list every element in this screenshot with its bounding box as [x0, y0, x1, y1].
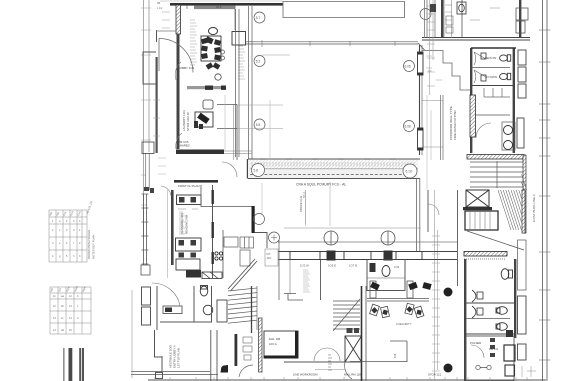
vert leader x330	[329, 182, 331, 226]
dark band left	[174, 180, 218, 183]
column dark top	[506, 330, 513, 337]
chair above 1	[370, 282, 380, 291]
right mid dim ticks	[432, 236, 440, 371]
elevator shaft	[466, 190, 489, 207]
corridor top dashes	[260, 158, 396, 160]
wall block 2	[221, 86, 226, 90]
column circle F2	[381, 231, 395, 245]
bottom dim ticks	[155, 377, 527, 381]
plant circle 1	[215, 74, 221, 80]
vert dim x262 low	[261, 183, 263, 214]
grid bubble B top	[420, 9, 431, 20]
west outer wall low pair	[144, 194, 147, 265]
svg-text:5.7: 5.7	[256, 16, 261, 20]
desk diag chair	[197, 113, 209, 124]
left pilaster 2	[142, 307, 151, 325]
wall x278 seg	[278, 240, 280, 300]
west inner wall	[177, 34, 180, 149]
wall x320 lower	[320, 260, 322, 301]
entry step marks	[144, 187, 154, 193]
dim text stack B	[238, 46, 245, 79]
svg-text:1O2 W: 1O2 W	[300, 264, 309, 268]
room2 door arc	[176, 133, 182, 149]
svg-text:118: 118	[393, 353, 397, 358]
vert leader x305b	[305, 190, 307, 224]
conference chairs	[201, 38, 221, 70]
vert dim x270	[269, 100, 271, 160]
corner hatched wall	[176, 5, 181, 34]
lower door arc	[239, 365, 253, 377]
wash toilet	[200, 286, 208, 297]
janitor room	[466, 336, 514, 381]
corridor hatch band	[250, 160, 417, 169]
courtyard outline	[283, 2, 405, 18]
class table 3	[176, 259, 200, 270]
svg-text:1ST FLR PLAN: 1ST FLR PLAN	[177, 348, 181, 368]
north horizontal wall	[422, 38, 530, 41]
wall x236 lower	[235, 334, 238, 366]
west outer wall lower	[156, 57, 158, 153]
bubble mid 2 mark	[271, 235, 277, 241]
west wall box	[141, 265, 150, 275]
wash sink 1	[504, 126, 513, 135]
svg-text:12O A: 12O A	[269, 342, 277, 346]
stall door arc 2	[474, 70, 485, 83]
wall x428	[427, 190, 429, 232]
svg-text:6.08: 6.08	[405, 124, 411, 128]
stall fixtures lower	[472, 290, 483, 318]
tall cabinet 2	[518, 344, 527, 360]
kit text box	[265, 249, 278, 266]
svg-text:MENS RM: MENS RM	[485, 57, 496, 60]
stripe thick 2a	[79, 348, 81, 381]
low stairs treads	[228, 288, 257, 323]
heavy wall blocks right	[252, 206, 255, 233]
y369 line	[315, 369, 345, 371]
svg-text:5.5: 5.5	[256, 123, 261, 127]
south wall band	[278, 252, 457, 260]
svg-text:SHARED: SHARED	[178, 144, 190, 148]
stair box treads	[470, 212, 490, 229]
stall door arc 1	[474, 52, 485, 65]
north wall b	[441, 0, 443, 38]
corridor bottom line	[248, 178, 420, 180]
dark counter	[186, 270, 201, 278]
class chairs 2	[179, 240, 197, 258]
stall wall 1	[466, 302, 516, 304]
ele room box	[264, 331, 298, 358]
north wall d	[519, 0, 521, 38]
interior wall pair 2	[249, 6, 253, 160]
svg-text:KIT: KIT	[267, 252, 271, 256]
wash walls	[157, 286, 212, 330]
table top item	[205, 36, 214, 44]
stall wall 3	[466, 333, 516, 335]
classroom west wall	[171, 190, 174, 265]
class note marks	[179, 212, 185, 234]
stall wall 2	[466, 318, 510, 320]
lower bath west wall	[464, 259, 466, 381]
right property line	[542, 0, 544, 381]
toilet lower c	[496, 323, 507, 331]
niche inner line	[233, 105, 235, 161]
bath door arc	[476, 123, 491, 138]
corridor left arc	[222, 162, 237, 177]
north casework 1	[516, 8, 528, 20]
stair hatch sidewall	[522, 190, 525, 233]
svg-text:11O: 11O	[267, 256, 272, 260]
desk diag room	[195, 112, 213, 127]
conference table	[201, 36, 221, 61]
long line ticks	[262, 40, 395, 47]
toilet lower b	[496, 307, 507, 315]
corridor dashed line	[250, 174, 417, 176]
dishwasher box	[202, 272, 222, 279]
svg-text:MAIL RM 118: MAIL RM 118	[344, 373, 361, 377]
svg-text:FIRE RATED GYP BD: FIRE RATED GYP BD	[453, 109, 457, 140]
column blob 1	[444, 288, 453, 297]
svg-text:READING RM: READING RM	[185, 214, 189, 234]
entry left dim line	[131, 290, 133, 378]
chair above 2	[408, 282, 418, 290]
jan fixtures	[490, 338, 495, 357]
stove circles	[215, 252, 223, 260]
stair diag hatch	[498, 174, 527, 230]
table 1 text	[49, 210, 95, 259]
bottom right ticks	[522, 366, 536, 377]
window box 2	[418, 128, 424, 150]
north room line x451	[451, 0, 453, 38]
grid bubble A y170	[253, 164, 266, 177]
tr partition	[367, 277, 405, 279]
left dimension chain	[144, 0, 150, 238]
chair above 3	[422, 282, 431, 290]
svg-text:STOR 1O2 JC: STOR 1O2 JC	[186, 111, 190, 131]
south col block 2	[384, 251, 393, 261]
svg-text:FIRST FL PLAN: FIRST FL PLAN	[178, 184, 200, 188]
svg-text:1O7 B: 1O7 B	[349, 264, 357, 268]
grid bubble A y61	[254, 56, 265, 67]
tr fixture 1	[370, 263, 376, 272]
door arcs pair	[314, 348, 340, 361]
grid bubble B y126	[404, 121, 415, 132]
svg-text:ELE. RM: ELE. RM	[269, 337, 281, 341]
svg-text:1O6 E: 1O6 E	[328, 264, 336, 268]
bottom boundary line	[148, 379, 546, 381]
cabinet right dark	[504, 345, 515, 361]
upper stairs handrail	[496, 161, 498, 188]
svg-text:5.2: 5.2	[256, 59, 261, 63]
equip marks	[194, 121, 203, 129]
desk cluster right	[370, 303, 424, 318]
svg-text:5.8: 5.8	[254, 168, 259, 172]
lockers right	[518, 50, 526, 98]
shelving X box	[345, 336, 362, 362]
left dim ticks	[141, 8, 151, 205]
wall x290 lower	[289, 260, 291, 295]
table top ellipse	[209, 28, 218, 35]
jog right low	[255, 233, 268, 249]
entry arc	[152, 283, 180, 306]
bath west wall	[470, 48, 472, 153]
note text stack C	[303, 270, 310, 292]
vanity rect	[517, 118, 524, 148]
vert leader x305	[305, 190, 307, 226]
stair side wall upper	[523, 155, 526, 233]
ele room east wall	[295, 331, 298, 358]
vestibule wall upper	[154, 330, 156, 357]
svg-text:STOR 121: STOR 121	[428, 373, 442, 377]
class chairs 1	[179, 197, 196, 203]
south wall window 1	[290, 252, 320, 260]
bath top wall	[471, 47, 516, 49]
casework box	[224, 237, 238, 247]
toilet room center	[367, 260, 405, 291]
right property line 2	[546, 0, 548, 381]
top interior wall band	[194, 6, 235, 10]
lav hatched wall	[470, 95, 476, 137]
shelf marks	[347, 328, 360, 333]
tall rect upper	[518, 240, 527, 290]
bath mid wall	[471, 85, 515, 87]
svg-text:PULSER: PULSER	[470, 341, 481, 345]
low stair edge	[256, 286, 258, 330]
corridor left jamb	[247, 159, 249, 179]
svg-text:LOBBY 1O1: LOBBY 1O1	[178, 66, 195, 70]
wall connector y31	[156, 30, 176, 32]
svg-text:4B: 4B	[157, 1, 160, 5]
top exterior wall	[170, 3, 283, 6]
diag connector	[418, 43, 425, 50]
svg-text:1 1/2: 1 1/2	[157, 7, 163, 10]
janitor door arc	[471, 345, 484, 358]
right top dim chain	[430, 0, 434, 95]
stripe thick 2b	[82, 348, 84, 381]
right top blob	[430, 4, 436, 12]
column blob 2	[444, 364, 453, 373]
svg-text:1O9: 1O9	[394, 265, 399, 269]
lower mid walls	[211, 330, 217, 381]
corridor inner line	[250, 168, 418, 170]
diagonal wall double	[228, 259, 257, 291]
vestibule door arc	[159, 39, 193, 73]
wash counter	[163, 306, 182, 314]
niche top room	[201, 185, 254, 207]
ele room south wall	[264, 356, 298, 359]
toilet 2	[500, 73, 511, 79]
stall partition 2	[471, 114, 510, 116]
center wall x213	[212, 185, 214, 278]
corridor tick row	[252, 162, 414, 167]
mid stair stringer	[333, 299, 360, 331]
svg-text:NOTES KEY PLAN: NOTES KEY PLAN	[92, 235, 96, 259]
hatched band right	[467, 155, 524, 160]
top dim line	[160, 0, 283, 2]
grid bubble A y124	[254, 119, 265, 130]
xbox door arc	[345, 362, 352, 379]
door panel rect	[217, 300, 227, 322]
corridor band base	[248, 160, 418, 179]
left pilaster 1	[142, 287, 151, 305]
wash sink 2	[504, 141, 513, 150]
wash counter sink	[165, 308, 172, 313]
table 2 text	[50, 285, 87, 332]
mid stairs treads	[333, 301, 360, 329]
svg-text:ROOM FINISH SCHED: ROOM FINISH SCHED	[87, 230, 91, 259]
north room wall a	[434, 0, 436, 38]
interior wall band y88	[187, 86, 226, 89]
corridor top line	[248, 158, 420, 160]
wash counter	[502, 122, 515, 150]
interior wall pair 1	[236, 9, 240, 157]
wall jog room 118	[350, 341, 407, 362]
right wing west wall	[420, 45, 423, 155]
counter screens	[484, 88, 510, 97]
sink small	[203, 100, 213, 109]
ele west hatched wall	[259, 318, 263, 372]
janitor box	[505, 365, 515, 376]
grid bubble B4 over band	[403, 164, 417, 178]
class table 1	[177, 195, 202, 205]
bubble mid 2	[269, 232, 280, 243]
upper stairs treads	[470, 162, 524, 187]
class dim marks	[178, 208, 198, 210]
svg-text:6.05: 6.05	[405, 64, 411, 68]
wall block 1	[205, 86, 213, 90]
partition line y299	[367, 299, 429, 302]
jog room SW	[284, 294, 303, 301]
jog ticks	[426, 56, 442, 80]
window box	[418, 52, 424, 75]
mid wall thin ext	[224, 151, 252, 154]
right property ticks	[539, 30, 551, 360]
hatched band right-mid	[464, 252, 507, 257]
legend table 1	[49, 210, 87, 262]
lower bath east wall	[514, 259, 516, 338]
west wall mullions	[142, 194, 149, 264]
svg-text:CRA A SQUL PCMURY FCU - AL: CRA A SQUL PCMURY FCU - AL	[296, 183, 346, 187]
svg-text:LINE WORKROOM: LINE WORKROOM	[293, 373, 318, 377]
long double line upper	[245, 42, 418, 44]
west outer wall upper	[156, 30, 158, 42]
urinal fixtures	[481, 53, 486, 81]
wash sink circle	[203, 305, 213, 315]
stair diagonal line	[467, 231, 524, 250]
west wall pair below box	[146, 154, 150, 191]
right top dim ticks	[427, 6, 435, 86]
north casework 2	[516, 21, 525, 33]
cubbies grid	[240, 237, 254, 266]
west dim marks mid	[158, 158, 166, 174]
niche ext line y128	[237, 128, 283, 130]
toilet 1	[500, 55, 511, 61]
stripe thin	[63, 348, 64, 381]
sink top room	[457, 2, 466, 14]
vert dim x225	[224, 95, 226, 150]
dotted strip	[464, 258, 506, 260]
partition stub 2	[407, 281, 413, 298]
stall partition 1	[471, 67, 510, 69]
north room marks	[445, 5, 500, 20]
svg-text:3.2: 3.2	[428, 69, 432, 73]
corridor end wall pair	[417, 178, 420, 251]
west wall lower pair	[441, 95, 444, 160]
small room door arc	[428, 204, 439, 215]
right top marks	[444, 0, 453, 37]
svg-text:EXIST BLDG LINE A: EXIST BLDG LINE A	[532, 194, 536, 222]
left recess bump	[143, 52, 156, 84]
lower wall y362	[284, 361, 361, 363]
svg-text:ABOVE CLG: ABOVE CLG	[299, 196, 303, 212]
grid bubble A y17	[254, 12, 265, 23]
right wing h-line y147	[422, 146, 443, 148]
top small ticks	[162, 12, 170, 28]
heavy wall mid	[362, 286, 367, 381]
table cups	[221, 50, 225, 60]
column circle F1	[324, 231, 338, 245]
toilet lower a	[501, 269, 512, 280]
svg-text:115 WMNS: 115 WMNS	[485, 76, 497, 79]
south dim line	[284, 227, 421, 229]
niche ext line y105	[237, 104, 283, 106]
tr toilet	[382, 266, 390, 277]
top partition stubs	[187, 6, 235, 31]
niche walls	[217, 105, 237, 161]
grid bubble B y66	[404, 61, 415, 72]
classroom door arc top	[161, 186, 171, 196]
partition stub 1	[370, 281, 376, 298]
west wall box mid	[142, 142, 154, 154]
room1 door arc	[175, 62, 181, 80]
classroom west inner line	[167, 190, 169, 278]
south wall window 3	[396, 252, 422, 260]
vestibule wall lower	[154, 356, 162, 372]
west wall ticks	[153, 100, 160, 136]
west wall mid	[177, 90, 180, 132]
right wing h-line y100	[422, 100, 443, 102]
svg-text:18.5: 18.5	[216, 5, 222, 9]
north room wall pair left	[425, 0, 428, 38]
tick string x329	[328, 355, 332, 370]
north room wall c	[461, 0, 463, 38]
bath east wall	[513, 48, 515, 153]
stripe thick 1	[69, 348, 73, 381]
south wall window 2	[344, 252, 371, 260]
leader y55	[262, 54, 290, 56]
wall x457	[457, 190, 459, 286]
right wing dim marks	[427, 95, 431, 190]
mid hatched wall	[176, 150, 224, 155]
lower small marks	[243, 337, 252, 360]
low stair wall	[251, 286, 253, 333]
south col block 1	[327, 251, 336, 261]
dim symbol oc	[476, 365, 491, 369]
tall cabinet 1	[518, 296, 527, 334]
bubble mid 1	[254, 214, 265, 225]
elevator south wall	[463, 207, 492, 210]
legend table 2	[50, 287, 91, 334]
closet rect	[232, 32, 246, 46]
dim text stack A	[190, 20, 197, 65]
room jog steps	[422, 51, 470, 91]
grid bubble A4 over band	[252, 164, 265, 177]
kitchen wall	[222, 230, 224, 278]
grid bubble B y171	[402, 164, 416, 178]
dark blob door	[221, 365, 229, 373]
entry box	[156, 373, 163, 379]
stair box	[465, 211, 498, 230]
svg-text:6.1O: 6.1O	[406, 169, 413, 173]
